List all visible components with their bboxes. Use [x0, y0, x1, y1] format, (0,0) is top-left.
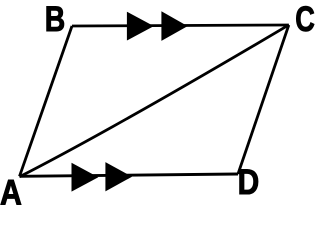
parallel mark arrow 1 on BC	[127, 12, 154, 41]
parallel mark arrow 2 on AD	[105, 162, 132, 191]
side CD (right edge)	[238, 25, 289, 174]
parallel mark arrow 2 on BC	[161, 11, 187, 41]
side AB (left edge)	[20, 26, 73, 176]
svg-text:C: C	[295, 0, 315, 39]
diagonal AC	[20, 25, 290, 177]
parallel mark arrow 1 on AD	[72, 163, 99, 192]
svg-text:D: D	[238, 163, 260, 202]
svg-text:B: B	[45, 0, 65, 38]
side AD (bottom edge)	[20, 174, 239, 176]
svg-text:A: A	[0, 173, 22, 208]
side BC (top edge)	[72, 25, 289, 26]
